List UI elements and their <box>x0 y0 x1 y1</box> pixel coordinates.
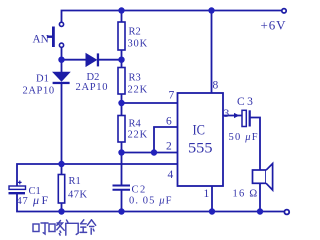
wire pin 8 <box>211 11 213 94</box>
resistor R4 <box>118 116 125 143</box>
wire R2 to node B <box>121 50 123 60</box>
svg-text:7: 7 <box>169 90 175 102</box>
svg-text:2AP10: 2AP10 <box>23 86 55 97</box>
wire node D to C2 <box>121 153 123 186</box>
terminal +6V <box>282 9 286 13</box>
wire speaker to bottom rail <box>259 184 261 212</box>
svg-text:C3: C3 <box>237 96 255 108</box>
wire pin 7 <box>122 102 178 104</box>
label C1 plus sign <box>18 181 22 185</box>
svg-text:R1: R1 <box>69 176 81 187</box>
node C (R3/R4/pin7 junction) <box>118 100 124 106</box>
wire C2 to bottom rail <box>121 190 123 212</box>
svg-text:IC: IC <box>193 123 206 139</box>
svg-text:22K: 22K <box>128 85 148 96</box>
wire node B to R3 <box>121 60 123 68</box>
svg-text:+6V: +6V <box>261 18 287 33</box>
wire R2 column <box>121 11 123 23</box>
node J (speaker bottom rail) <box>257 208 263 214</box>
svg-text:50 μF: 50 μF <box>229 132 259 143</box>
op-amp U1 IC 555 box <box>178 93 224 186</box>
node L (pin8 top rail junction) <box>208 7 214 13</box>
svg-text:555: 555 <box>188 141 213 157</box>
svg-text:4: 4 <box>168 169 174 181</box>
pin 3 arrow <box>234 113 240 118</box>
svg-text:2: 2 <box>166 141 172 153</box>
node B (R2/R3/D2 junction) <box>118 57 124 63</box>
char 咚 <box>49 224 55 232</box>
wire pin 1 <box>211 186 213 212</box>
wire R1 top lead <box>61 164 63 175</box>
node H (C2 bottom rail) <box>118 208 124 214</box>
wire D2 cathode to node B <box>98 59 122 61</box>
node A (D1/D2/button junction) <box>58 57 64 63</box>
svg-text:3: 3 <box>224 108 230 120</box>
svg-text:2AP10: 2AP10 <box>76 82 109 93</box>
wire C3 to speaker corner <box>251 118 261 170</box>
node K (R2 top rail junction) <box>118 7 124 13</box>
diode D1 <box>53 72 70 84</box>
wire R3 to node C <box>121 94 123 103</box>
wire pin 4 row (C1 top / R1 top / IC pin4) <box>17 164 178 186</box>
node G (R1 bottom rail) <box>58 208 64 214</box>
resistor R1 <box>58 175 64 204</box>
diode D2 <box>86 53 99 66</box>
wire pin 2 <box>122 152 178 154</box>
wire D1 cathode to node A <box>61 47 63 72</box>
svg-text:16 Ω: 16 Ω <box>233 189 259 200</box>
svg-text:R3: R3 <box>129 73 141 84</box>
capacitor C1 <box>9 186 26 193</box>
title 叮咚门铃 (hand drawn strokes) <box>33 220 96 235</box>
node E (pin6 riser junction) <box>151 149 157 155</box>
svg-text:μF: μF <box>32 193 51 207</box>
svg-text:30K: 30K <box>128 39 148 50</box>
wire top rail <box>62 11 283 23</box>
wire R1 bottom lead <box>61 203 63 212</box>
svg-text:AN: AN <box>33 34 49 46</box>
svg-text:8: 8 <box>213 80 219 92</box>
wire bottom rail <box>17 195 285 212</box>
svg-text:R2: R2 <box>129 27 141 38</box>
svg-text:C2: C2 <box>132 185 147 196</box>
resistor R2 <box>118 22 125 50</box>
svg-text:1: 1 <box>204 188 210 200</box>
push button AN <box>59 22 63 47</box>
svg-text:0. 05 μF: 0. 05 μF <box>129 196 173 207</box>
char 铃 <box>81 220 84 224</box>
svg-text:D1: D1 <box>36 74 49 85</box>
node D (R4/pin2/C2 junction) <box>118 149 124 155</box>
wire pin 3 to C3 <box>223 115 242 117</box>
capacitor C2 <box>113 186 131 190</box>
svg-text:6: 6 <box>166 116 172 128</box>
wire R4 to node D <box>121 142 123 153</box>
svg-text:22K: 22K <box>128 130 148 141</box>
terminal bottom right <box>284 210 289 215</box>
char 门 <box>67 220 69 223</box>
node F (D1/R1/pin4 junction) <box>58 161 64 167</box>
wire pin 6 riser <box>154 127 178 153</box>
char 叮 <box>33 224 39 232</box>
svg-text:R4: R4 <box>129 119 142 130</box>
speaker BL <box>253 164 273 190</box>
capacitor C3 <box>242 110 250 126</box>
svg-text:47K: 47K <box>68 190 88 201</box>
svg-text:47: 47 <box>17 196 29 207</box>
resistor R3 <box>118 68 125 95</box>
wire node A to D2 <box>62 59 87 61</box>
node I (pin1 bottom rail) <box>209 208 215 214</box>
wire D1 anode down to pin4 row <box>61 84 63 165</box>
wire node C to R4 <box>121 103 123 116</box>
